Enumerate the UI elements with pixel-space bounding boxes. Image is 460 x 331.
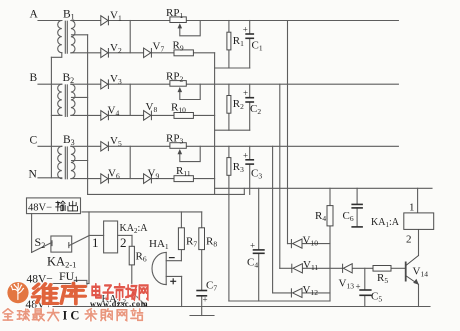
- svg-text:KA2:A: KA2:A: [120, 223, 149, 235]
- svg-text:+: +: [203, 295, 208, 305]
- svg-text:1: 1: [409, 202, 415, 214]
- svg-text:IC: IC: [63, 309, 83, 323]
- svg-text:N: N: [29, 168, 38, 180]
- svg-text:48V−: 48V−: [28, 202, 52, 213]
- svg-text:+: +: [243, 88, 248, 98]
- svg-text:+: +: [243, 25, 248, 35]
- svg-text:C: C: [30, 135, 38, 147]
- svg-text:KA1:A: KA1:A: [371, 217, 400, 229]
- svg-text:www.dzsc.com: www.dzsc.com: [90, 300, 148, 309]
- svg-text:A: A: [30, 9, 39, 21]
- svg-text:2: 2: [120, 235, 127, 250]
- svg-text:B: B: [30, 72, 38, 84]
- svg-text:+: +: [356, 282, 361, 292]
- svg-text:+: +: [250, 241, 255, 251]
- svg-text:+: +: [243, 150, 248, 160]
- svg-text:1: 1: [92, 235, 99, 250]
- svg-text:2: 2: [406, 234, 412, 246]
